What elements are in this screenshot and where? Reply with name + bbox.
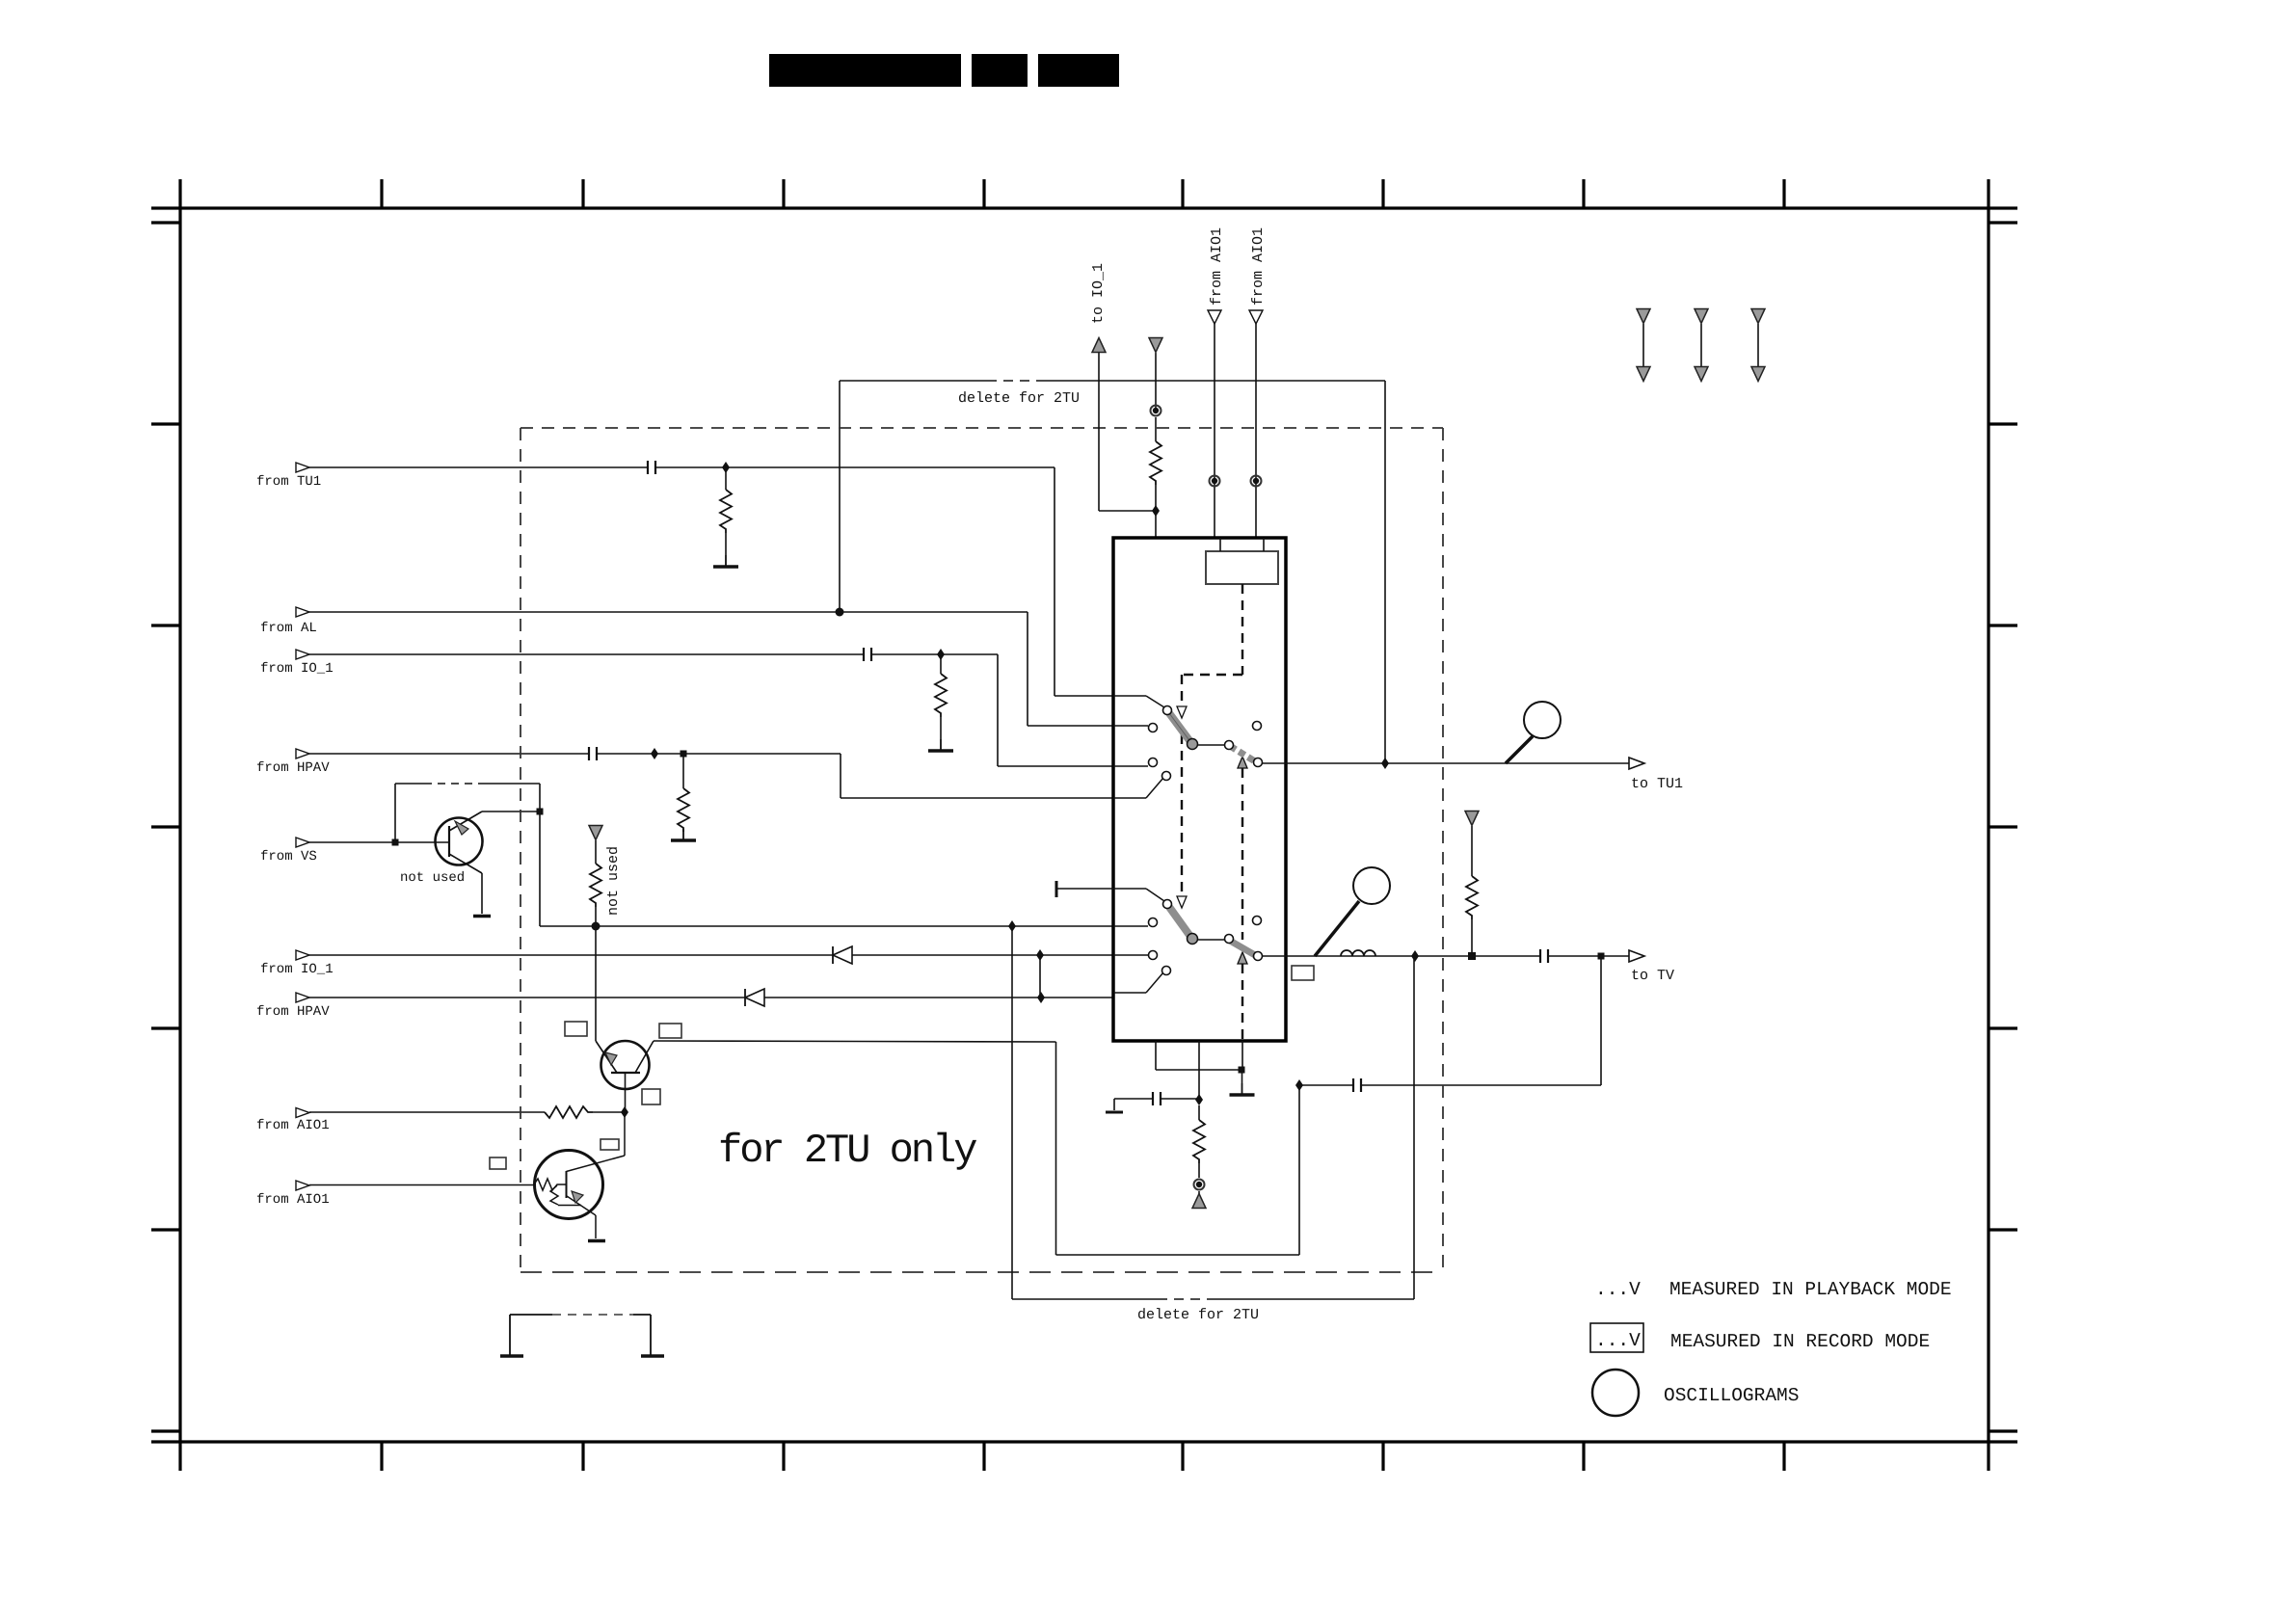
svg-text:from TU1: from TU1: [256, 474, 321, 490]
svg-text:from AIO1: from AIO1: [1250, 227, 1267, 306]
svg-text:from AL: from AL: [260, 621, 317, 636]
svg-text:not used: not used: [605, 846, 622, 916]
svg-text:from HPAV: from HPAV: [256, 760, 330, 776]
svg-text:to TV: to TV: [1631, 968, 1674, 984]
svg-text:from IO_1: from IO_1: [260, 962, 334, 977]
svg-text:from AIO1: from AIO1: [256, 1192, 330, 1208]
svg-text:from AIO1: from AIO1: [1209, 227, 1225, 306]
svg-text:delete for 2TU: delete for 2TU: [1137, 1307, 1259, 1323]
svg-text:to TU1: to TU1: [1631, 776, 1683, 792]
svg-text:for 2TU only: for 2TU only: [718, 1128, 976, 1174]
svg-text:...V: ...V: [1595, 1279, 1641, 1300]
svg-text:from VS: from VS: [260, 849, 317, 865]
svg-text:from HPAV: from HPAV: [256, 1004, 330, 1020]
svg-text:from AIO1: from AIO1: [256, 1118, 330, 1133]
svg-text:MEASURED IN PLAYBACK MODE: MEASURED IN PLAYBACK MODE: [1669, 1279, 1952, 1300]
svg-text:delete for 2TU: delete for 2TU: [958, 390, 1080, 407]
svg-text:MEASURED IN RECORD MODE: MEASURED IN RECORD MODE: [1670, 1331, 1930, 1352]
svg-text:not used: not used: [400, 870, 465, 886]
svg-text:to IO_1: to IO_1: [1090, 263, 1107, 324]
svg-text:...V: ...V: [1595, 1330, 1641, 1351]
svg-text:OSCILLOGRAMS: OSCILLOGRAMS: [1664, 1385, 1799, 1406]
svg-text:from IO_1: from IO_1: [260, 661, 334, 677]
